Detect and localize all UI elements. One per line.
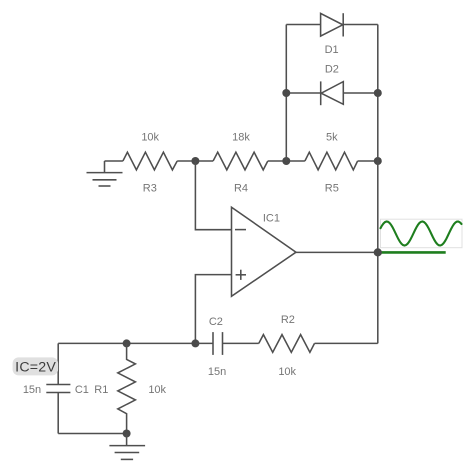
capacitor C1 [23,343,89,433]
node A (R3/R4 junction) [191,157,199,165]
op-amp IC1 [232,207,297,296]
svg-text:D1: D1 [325,44,339,56]
wire (node A to inverting input) [195,161,231,230]
wire [268,160,305,162]
svg-text:R2: R2 [281,314,295,326]
resistor R3 [123,132,177,195]
ground [109,434,145,460]
svg-text:D2: D2 [325,63,339,75]
node B (R4/R5 junction) [282,157,290,165]
node E (D2 right) [374,89,382,97]
node G (output node) [374,248,382,256]
svg-text:15n: 15n [23,384,41,396]
wire [177,160,213,162]
svg-text:10k: 10k [278,366,296,378]
svg-text:R3: R3 [143,182,157,194]
wire [315,342,378,344]
IC=2V initial condition label [13,357,59,375]
svg-text:R1: R1 [94,384,108,396]
resistor R4 [213,132,268,195]
wire (left diode rail) [285,25,287,162]
svg-text:18k: 18k [232,132,250,144]
wire (op-amp output) [296,251,378,253]
svg-text:5k: 5k [326,132,338,144]
capacitor C2 [195,316,258,378]
node H (R1 top node) [123,339,131,347]
svg-text:C1: C1 [75,384,89,396]
diode D2 [286,63,378,105]
resistor R5 [305,132,358,195]
svg-text:IC=2V: IC=2V [15,360,56,376]
resistor R1 [94,343,166,433]
node I (R1 bottom node) [123,430,131,438]
svg-text:10k: 10k [141,132,159,144]
node C (R5/rail junction) [374,157,382,165]
resistor R2 [259,314,315,378]
svg-text:C2: C2 [209,316,223,328]
wire [358,160,378,162]
wire (non-inverting input to node F) [195,275,231,344]
svg-text:IC1: IC1 [263,213,280,225]
svg-text:15n: 15n [208,366,226,378]
diode D1 [286,13,378,56]
node D (D2 left) [282,89,290,97]
node F (C2 left node) [191,339,199,347]
wire [105,160,123,162]
svg-text:R5: R5 [325,182,339,194]
wire (right rail) [377,25,379,344]
wire (bottom row left) [58,342,195,344]
svg-text:R4: R4 [234,182,248,194]
ground [87,161,123,186]
wire (bottom) [58,433,126,435]
scope trace display [381,219,463,252]
svg-text:10k: 10k [148,384,166,396]
